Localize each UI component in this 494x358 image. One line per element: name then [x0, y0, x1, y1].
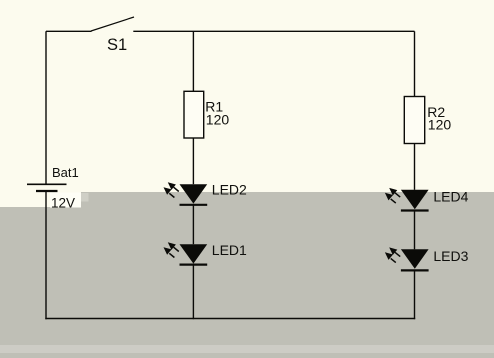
cream canvas area	[0, 0, 494, 192]
LED LED2	[164, 182, 208, 205]
light artifact square right of 12V	[81, 193, 89, 202]
switch S1	[91, 17, 134, 31]
resistor R2	[404, 97, 424, 144]
LED LED4	[385, 188, 429, 211]
wire left vertical upper (to battery)	[45, 31, 47, 184]
wire left vertical lower (battery to bottom)	[45, 191, 47, 319]
wire right vertical LED4 to LED3	[414, 211, 416, 250]
svg-text:Bat1: Bat1	[52, 165, 79, 180]
svg-text:LED1: LED1	[212, 242, 247, 258]
wire middle vertical top (to R1)	[192, 31, 194, 91]
svg-text:12V: 12V	[51, 196, 75, 211]
wire right vertical R2 to LED4	[414, 144, 416, 190]
svg-text:120: 120	[428, 117, 452, 133]
highlight patch behind 12V label	[50, 193, 81, 208]
svg-text:LED3: LED3	[433, 248, 468, 264]
wire bottom horizontal	[45, 318, 415, 320]
wire middle vertical LED2 to LED1	[192, 205, 194, 244]
svg-text:120: 120	[206, 111, 230, 127]
svg-text:LED2: LED2	[212, 181, 247, 197]
bottom lighter taskbar band	[0, 345, 494, 353]
wire right vertical top (to R2)	[414, 31, 416, 96]
wire top horizontal from switch to right corner	[133, 30, 414, 32]
battery Bat1	[27, 184, 67, 191]
wire top-left segment to switch	[46, 30, 92, 32]
svg-text:S1: S1	[107, 36, 127, 54]
LED LED1	[164, 242, 208, 264]
LED LED3	[385, 247, 429, 270]
resistor R1	[184, 91, 204, 138]
wire middle vertical R1 to LED2	[192, 138, 194, 184]
cream canvas step around 12V	[0, 192, 81, 207]
svg-text:LED4: LED4	[433, 188, 468, 204]
wire middle vertical LED1 to bottom	[192, 265, 194, 320]
wire right vertical LED3 to bottom	[414, 270, 416, 319]
